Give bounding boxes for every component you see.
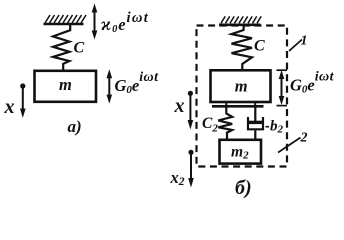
x2 axis arrow xyxy=(188,152,194,187)
dash before b2 xyxy=(266,126,270,128)
ceiling hatching (b) xyxy=(221,16,261,23)
spring c2 xyxy=(218,107,232,140)
x2 axis origin dot xyxy=(188,150,193,155)
damper piston plate xyxy=(247,121,264,124)
mass m2 box xyxy=(220,140,262,164)
force double arrow G (a) xyxy=(107,69,113,103)
bar under mass (b) xyxy=(212,105,264,108)
ceiling line (b) xyxy=(219,23,261,26)
mass m box (b) xyxy=(211,70,271,102)
x axis arrow (b) xyxy=(188,93,194,129)
leader line 1 xyxy=(289,40,302,52)
X axis origin dot (a) xyxy=(20,83,25,88)
ceiling line (a) xyxy=(44,23,84,26)
leader line 2 xyxy=(278,138,301,153)
svg-text:1: 1 xyxy=(301,34,308,49)
force double arrow G (b) xyxy=(279,70,285,105)
svg-text:m: m xyxy=(59,75,72,94)
bar connectors xyxy=(225,102,227,107)
svg-text:C: C xyxy=(254,38,265,55)
dashed enclosure box xyxy=(197,26,288,167)
svg-text:а): а) xyxy=(68,117,82,136)
svg-text:m: m xyxy=(235,76,248,95)
svg-text:x: x xyxy=(4,96,15,118)
ceiling hatching (a) xyxy=(45,15,86,23)
support motion double arrow (a) xyxy=(92,4,98,40)
svg-text:б): б) xyxy=(235,177,252,199)
svg-text:2: 2 xyxy=(300,131,308,146)
spring C (b) xyxy=(232,25,253,71)
x axis origin dot (b) xyxy=(188,91,193,96)
tick top of G arrow (b) xyxy=(277,69,288,71)
spring C (a) xyxy=(53,25,70,71)
svg-text:x: x xyxy=(174,95,185,117)
damper b2 xyxy=(248,108,263,140)
mass m box (a) xyxy=(35,71,97,102)
X axis arrow (a) xyxy=(20,86,26,118)
svg-text:C: C xyxy=(74,40,85,57)
tick bottom of G arrow (b) xyxy=(277,105,288,107)
